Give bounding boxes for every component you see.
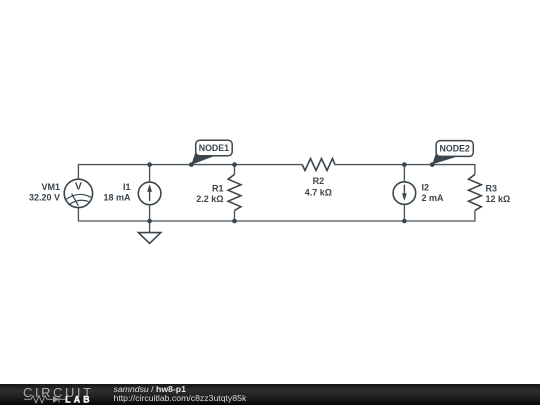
wire bottom rail xyxy=(78,208,475,221)
wire R1 branch bottom xyxy=(234,210,236,221)
footer line 1 xyxy=(114,385,186,394)
wire ground stub xyxy=(149,221,151,233)
svg-text:NODE2: NODE2 xyxy=(440,144,470,154)
wire R1 branch top xyxy=(234,165,236,175)
node NODE1 flag xyxy=(191,140,232,165)
svg-text:2 mA: 2 mA xyxy=(422,193,445,203)
labels xyxy=(29,176,510,204)
voltmeter VM1 xyxy=(64,179,92,207)
svg-text:I1: I1 xyxy=(123,182,131,192)
svg-text:32.20 V: 32.20 V xyxy=(29,193,60,203)
svg-text:2.2 kΩ: 2.2 kΩ xyxy=(196,194,223,204)
resistor R1 xyxy=(228,174,241,210)
resistor R2 xyxy=(302,159,335,171)
svg-text:VM1: VM1 xyxy=(41,182,60,192)
svg-text:I2: I2 xyxy=(422,183,430,193)
wire I2 branch bottom xyxy=(403,204,405,221)
svg-text:NODE1: NODE1 xyxy=(199,143,229,153)
wire top rail left segment xyxy=(78,165,302,180)
svg-text:R1: R1 xyxy=(212,183,224,193)
wire I2 branch top xyxy=(403,165,405,182)
svg-text:4.7 kΩ: 4.7 kΩ xyxy=(305,187,332,197)
svg-text:R3: R3 xyxy=(486,183,498,193)
svg-text:12 kΩ: 12 kΩ xyxy=(486,194,511,204)
junction dots xyxy=(147,162,434,223)
svg-text:R2: R2 xyxy=(313,176,325,186)
wire top rail right segment xyxy=(335,165,475,175)
ground xyxy=(138,233,160,244)
wire I1 branch bottom xyxy=(149,205,151,221)
CircuitLab logo xyxy=(0,384,110,405)
node NODE2 flag xyxy=(432,141,473,165)
footer line 2 xyxy=(114,394,247,403)
svg-text:18 mA: 18 mA xyxy=(103,193,131,203)
current source I2 xyxy=(393,182,416,205)
svg-text:LAB: LAB xyxy=(65,395,92,405)
current source I1 xyxy=(138,182,161,205)
resistor R3 xyxy=(469,174,482,210)
svg-text:V: V xyxy=(75,181,82,193)
wire I1 branch top xyxy=(149,165,151,183)
